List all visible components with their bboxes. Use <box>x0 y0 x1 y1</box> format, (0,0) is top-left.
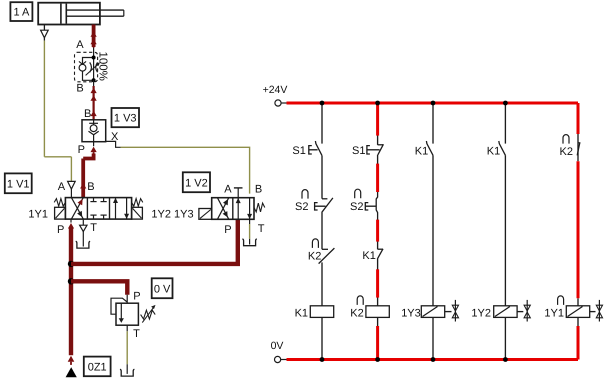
svg-text:0 V: 0 V <box>154 283 171 295</box>
wire: cylinder left port drain (yellow) <box>44 25 71 182</box>
contact S2 (NC pushbutton, closed) <box>315 198 333 212</box>
actuation mark S2 (branch 2) <box>355 189 361 198</box>
svg-text:100%: 100% <box>97 52 109 81</box>
svg-text:+24V: +24V <box>263 84 288 96</box>
flow arrow at 1V1 A port <box>68 181 76 197</box>
wire: 1V3 P to 1V1 B (pressure) <box>83 142 93 198</box>
terminal 0V <box>271 340 287 362</box>
actuation mark S2 <box>302 190 308 199</box>
svg-text:0Z1: 0Z1 <box>88 361 107 373</box>
svg-text:S1: S1 <box>292 145 305 157</box>
wire branch 3 (K1, 1Y3) <box>432 103 434 360</box>
check valve 1V3 (pilot operated) <box>82 120 106 142</box>
svg-text:K2: K2 <box>560 146 573 158</box>
svg-text:1Y2: 1Y2 <box>471 307 491 319</box>
throttle check valve (flow control, 100%) <box>75 52 100 82</box>
pilot line X of 1V3 to port B of 1V2 (yellow) <box>106 141 250 193</box>
flow arrows between throttle and 1V3 <box>91 88 97 119</box>
solenoid 1Y2 (right of 1V1) <box>132 207 143 219</box>
svg-text:B: B <box>255 184 262 196</box>
node throttle top junction <box>92 56 96 60</box>
svg-text:K1: K1 <box>487 145 500 157</box>
svg-text:P: P <box>224 224 231 236</box>
tank (1V2 T) <box>242 239 256 246</box>
wire branch 5 energized segments (red) <box>577 103 580 360</box>
svg-text:P: P <box>57 224 64 236</box>
wire: 0V T to tank (yellow) <box>126 325 128 374</box>
contact K2 (NC relay, closed) <box>319 248 335 264</box>
valve symbol (1Y3) <box>454 300 456 322</box>
wire: throttle to check valve 1V3 (pressure) <box>93 80 95 120</box>
wire branch 2 base (black) <box>377 103 379 360</box>
directional valve 1V2 (4/2 way) <box>212 198 254 220</box>
node: bottom rail junctions <box>320 357 508 362</box>
svg-text:K2: K2 <box>308 251 321 263</box>
svg-text:T: T <box>258 223 265 235</box>
node: riser junction to 0V <box>68 278 74 284</box>
svg-text:K1: K1 <box>362 250 375 262</box>
wire: 1V1 T to tank <box>80 219 87 246</box>
svg-text:S2: S2 <box>295 201 308 213</box>
svg-text:K2: K2 <box>350 307 363 319</box>
wire branch 5 base (black) <box>577 134 579 326</box>
relay coil K2 <box>366 306 389 318</box>
svg-text:P: P <box>133 290 140 302</box>
flow arrows below cylinder <box>91 31 97 47</box>
svg-text:1Y1: 1Y1 <box>544 307 564 319</box>
cylinder 1A <box>38 3 124 25</box>
svg-text:S2: S2 <box>350 201 363 213</box>
spring right (1V2) <box>254 203 265 212</box>
pressure relief valve 0V <box>111 298 138 325</box>
flow arrow at pump outlet <box>68 356 75 362</box>
svg-text:B: B <box>84 108 91 120</box>
wire branch 2 energized segments (red) <box>376 103 379 360</box>
actuation mark K2 coil <box>357 296 363 305</box>
svg-text:K1: K1 <box>295 307 308 319</box>
label box 0Z1 <box>84 357 111 377</box>
contact S1 (NO pushbutton, actuated closed) <box>367 144 384 155</box>
wire: cylinder right port to throttle (pressure) <box>92 25 96 58</box>
svg-text:A: A <box>58 181 66 193</box>
solenoid 1Y1 (left of 1V1) <box>55 207 66 219</box>
label box 1V3 <box>112 108 140 127</box>
svg-text:1 V1: 1 V1 <box>7 178 30 190</box>
actuation mark K2 <box>312 239 318 248</box>
node throttle bottom junction <box>92 78 96 82</box>
wire: 0V rail (red) <box>287 358 579 361</box>
solenoid coil 1Y2 <box>494 306 517 318</box>
spring left (1V1) <box>54 199 65 207</box>
svg-text:1 V3: 1 V3 <box>114 113 137 125</box>
svg-text:1Y1: 1Y1 <box>28 209 48 221</box>
svg-text:S1: S1 <box>352 145 365 157</box>
wire branch 4 (K1, 1Y2) <box>504 103 506 360</box>
contact K1 (NO relay, open) <box>426 141 433 155</box>
actuation mark 1Y1 <box>558 296 564 305</box>
flow arrow at cylinder left port <box>41 30 49 38</box>
actuation mark K2 (branch 5) <box>563 135 569 144</box>
svg-text:1 V2: 1 V2 <box>185 177 208 189</box>
directional valve 1V1 (4/3 way) <box>65 198 131 220</box>
relay coil K1 <box>310 306 333 318</box>
wire to valve symbol 1Y3 <box>445 311 452 313</box>
valve symbol (1Y1) <box>598 300 600 322</box>
contact K1 (NO relay, closed) <box>377 249 383 259</box>
wire: +24V rail (red) <box>287 102 579 105</box>
node: riser junction to 1V2 <box>68 261 74 267</box>
node: top rail junctions <box>320 101 508 106</box>
pump riser (pressure, 0Z1 to 1V1 P) <box>70 219 72 355</box>
svg-text:B: B <box>87 181 94 193</box>
contact K2 (NO relay, actuated closed) <box>577 143 580 156</box>
flow arrow into 1V3 P <box>91 147 97 153</box>
svg-text:1Y3: 1Y3 <box>401 307 421 319</box>
spring right (1V1) <box>132 199 143 207</box>
pump / pressure source 0Z1 <box>66 367 77 377</box>
svg-text:0V: 0V <box>271 340 284 352</box>
solenoid 1Y3 (left of 1V2) <box>199 209 212 220</box>
svg-text:B: B <box>76 83 83 95</box>
svg-text:A: A <box>224 184 232 196</box>
solenoid coil 1Y3 <box>421 306 444 318</box>
contact K1 (NO relay, open, branch 4) <box>499 141 506 155</box>
svg-text:T: T <box>90 222 97 234</box>
wire branch 1 (S1,S2,K2,K1 coil) <box>321 103 323 360</box>
svg-text:K1: K1 <box>415 145 428 157</box>
valve symbol (1Y2) <box>526 300 528 322</box>
contact S1 (NO pushbutton, open) <box>309 141 322 156</box>
label box 0V <box>152 278 173 298</box>
wire: riser to 1V2 P (pressure) <box>71 219 238 264</box>
flow arrow at 1V1 B port <box>80 183 86 189</box>
svg-text:A: A <box>76 39 84 51</box>
label box 1V2 <box>183 172 210 192</box>
wire: 1V2 B/T to tank (yellow) <box>249 219 251 244</box>
svg-text:1Y2 1Y3: 1Y2 1Y3 <box>151 209 193 221</box>
wire to valve symbol 1Y1 <box>590 311 596 313</box>
tank (1V1 T) <box>76 241 90 248</box>
flow arrow into 1V1 P <box>68 223 74 229</box>
label box 1V1 <box>5 173 32 193</box>
svg-text:1 A: 1 A <box>13 7 30 19</box>
contact S2 (NC pushbutton, actuated) <box>365 192 377 220</box>
spring with arrow (0V) <box>141 305 156 323</box>
solenoid coil 1Y1 <box>566 306 589 318</box>
label box 1A <box>10 2 32 21</box>
plug at 1V2 A port <box>234 188 243 198</box>
tank (0V T) <box>120 369 134 376</box>
terminal +24V <box>263 84 288 106</box>
svg-text:P: P <box>78 144 85 156</box>
svg-text:T: T <box>133 328 140 340</box>
wire: riser to 0V P (pressure) <box>71 281 127 303</box>
wire to valve symbol 1Y2 <box>517 311 523 313</box>
